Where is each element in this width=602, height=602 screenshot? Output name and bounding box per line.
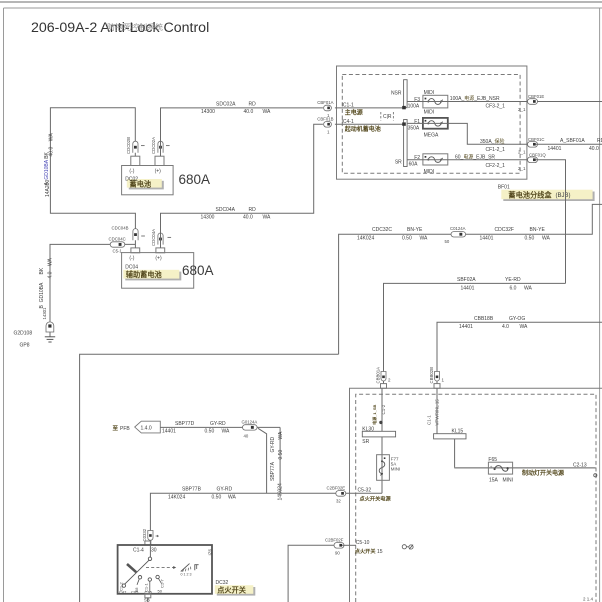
svg-text:GP8: GP8 [20, 343, 30, 349]
svg-text:(+): (+) [155, 169, 162, 175]
C|R jumper label [381, 112, 394, 121]
fuse F77 element [379, 457, 385, 475]
svg-text:MINI: MINI [391, 466, 401, 471]
connector CDC02A [151, 137, 170, 154]
svg-text:GY-RD: GY-RD [270, 436, 276, 452]
svg-text:B GD10BA: B GD10BA [39, 282, 45, 309]
svg-text:2 1.4: 2 1.4 [583, 597, 594, 602]
junction dot NSR [402, 106, 406, 109]
svg-text:14K024: 14K024 [357, 235, 374, 241]
svg-text:主电源: 主电源 [345, 109, 363, 117]
svg-text:CBF01A: CBF01A [317, 100, 333, 105]
svg-text:C5-32: C5-32 [358, 487, 372, 493]
svg-text:MEGA: MEGA [424, 133, 439, 139]
svg-text:32: 32 [336, 499, 341, 504]
svg-text:WA: WA [542, 235, 551, 241]
svg-text:F3: F3 [414, 97, 420, 103]
wire SBF02A YE-RD horizontal [384, 283, 566, 371]
svg-text:MINI: MINI [503, 477, 514, 483]
svg-text:0.50: 0.50 [402, 235, 412, 241]
svg-text:CDC04C: CDC04C [109, 237, 126, 242]
svg-text:14300: 14300 [201, 214, 215, 220]
svg-text:350A_保险: 350A_保险 [480, 138, 504, 145]
connector CBF01Q [528, 152, 547, 162]
svg-text:G2D108: G2D108 [14, 331, 33, 337]
svg-text:2_1: 2_1 [518, 150, 526, 155]
svg-text:CBB02B: CBB02B [429, 367, 434, 384]
connector C0124A inline on BN-YE wire [445, 226, 466, 244]
svg-text:C2-13: C2-13 [573, 462, 587, 468]
wire F77 down and left to C5-32 [344, 492, 382, 494]
svg-text:G0124A: G0124A [242, 419, 258, 424]
svg-text:CDC04A: CDC04A [151, 229, 156, 246]
svg-text:60_电源_EJB_SR: 60_电源_EJB_SR [455, 154, 495, 161]
svg-text:CBB01A: CBB01A [376, 367, 381, 384]
switch bottom contacts [122, 584, 125, 587]
svg-text:GY-OG: GY-OG [509, 316, 525, 322]
svg-text:RD: RD [249, 102, 257, 108]
switch dashed motion line with arrow [146, 566, 176, 569]
fuse F3 element [425, 98, 443, 105]
connector CBB01A [376, 367, 392, 384]
switch lever [125, 560, 150, 584]
svg-text:SR: SR [362, 439, 369, 445]
svg-text:C0124A: C0124A [450, 226, 466, 231]
wire SBP77A down [279, 427, 281, 493]
svg-text:BK: BK [39, 267, 45, 274]
svg-text:40.0: 40.0 [589, 146, 599, 152]
svg-text:点火开关 15: 点火开关 15 [355, 547, 383, 555]
connector G0124A inline [242, 419, 258, 438]
svg-text:30: 30 [151, 548, 157, 554]
wire CBF01Q down to SBF02A [536, 160, 566, 284]
svg-text:RD: RD [249, 207, 257, 213]
svg-text:电源_1_SB: 电源_1_SB [371, 404, 377, 424]
svg-text:2_1: 2_1 [518, 166, 526, 171]
wire CDC32 BN-YE horizontal [339, 204, 602, 354]
svg-text:F65: F65 [488, 457, 497, 463]
svg-text:SR: SR [395, 160, 402, 166]
svg-text:350A: 350A [408, 126, 420, 132]
ignition switch DC32 highlight label 点火开关 [215, 585, 256, 595]
svg-text:CBF01Q: CBF01Q [529, 152, 546, 157]
busbar NSR [404, 80, 408, 108]
connector C2BF02F [325, 538, 344, 556]
wire C2BF02F into box [342, 544, 356, 546]
svg-text:起动机蓄电池: 起动机蓄电池 [344, 125, 381, 133]
svg-text:KL30: KL30 [362, 426, 374, 432]
svg-text:点火开关: 点火开关 [217, 585, 247, 594]
svg-text:40.0 WA: 40.0 WA [49, 133, 55, 157]
svg-text:CDC04B: CDC04B [112, 226, 129, 231]
svg-text:C5-10: C5-10 [356, 540, 370, 546]
svg-text:DC32: DC32 [216, 580, 229, 586]
svg-text:A_SBF01A: A_SBF01A [560, 138, 585, 144]
border frame outer top line [0, 1, 602, 3]
svg-text:(-): (-) [129, 169, 134, 175]
svg-text:C2BF02F: C2BF02F [325, 538, 344, 543]
fuse F3 box [423, 95, 448, 108]
wire KL15 down to F65 [455, 439, 456, 468]
wire battery DC04 (+) to CBF01B [161, 124, 323, 248]
battery DC02 (+) terminal [155, 156, 164, 165]
svg-text:4.0: 4.0 [502, 324, 509, 330]
lower component inner dashed box [356, 394, 596, 602]
svg-text:0.50: 0.50 [278, 450, 284, 460]
battery DC04 (+) terminal [156, 248, 165, 253]
svg-text:DC02: DC02 [125, 176, 138, 182]
svg-text:制动灯开关电源: 制动灯开关电源 [522, 469, 564, 477]
wire busbar SR to F1 [407, 123, 527, 144]
svg-text:14300: 14300 [201, 109, 215, 115]
svg-text:CF1-2_1: CF1-2_1 [486, 147, 506, 153]
svg-text:SDC02A: SDC02A [216, 102, 236, 108]
connector CBF01E [528, 94, 545, 104]
svg-text:60A: 60A [409, 161, 419, 167]
border frame inner top line [4, 7, 602, 9]
svg-text:90: 90 [335, 550, 340, 555]
svg-text:CDC02B: CDC02B [126, 137, 131, 154]
switch lever handle thick stroke [127, 564, 136, 572]
svg-text:点火开关电源: 点火开关电源 [360, 494, 392, 502]
fuse F1 box (thick) [423, 118, 448, 129]
fuse F1 element [425, 120, 443, 126]
BJB outer solid box [337, 66, 527, 179]
battery DC04 box [122, 253, 194, 289]
wire IC4-1 into SR busbar [335, 123, 404, 125]
border frame left line [3, 8, 5, 602]
battery DC02 highlight label 蓄电池 [127, 179, 164, 189]
svg-text:CBF01B: CBF01B [317, 117, 333, 122]
BJB highlight label 蓄电池分线盒 (BJB) [501, 190, 594, 201]
wire battery DC02 (-) up to corner [50, 108, 135, 248]
svg-text:WA: WA [278, 431, 284, 440]
svg-text:辅助蓄电池: 辅助蓄电池 [126, 270, 163, 279]
svg-text:6.0: 6.0 [510, 285, 517, 291]
ground connector G2D108 [46, 322, 54, 332]
fuse F2 element [425, 156, 443, 162]
wire SBP77D from PFB to splice [160, 426, 280, 428]
connector CDC04A [151, 229, 171, 246]
svg-text:40: 40 [244, 434, 249, 439]
busbar KL30 [362, 431, 395, 437]
connector CDC04C inline [109, 237, 126, 254]
svg-text:(-): (-) [129, 256, 134, 262]
svg-text:CBF01E: CBF01E [528, 94, 544, 99]
junction dot on C1-2 wire [379, 421, 382, 424]
rotary detent symbol [181, 564, 199, 577]
pin stub ignition switch top [145, 541, 151, 545]
svg-text:GY-RD: GY-RD [217, 487, 233, 493]
ignition switch DC32 box [118, 545, 212, 594]
svg-text:CBB18B: CBB18B [474, 316, 494, 322]
svg-text:F1: F1 [414, 119, 420, 125]
svg-text:C2BF02E: C2BF02E [327, 486, 346, 491]
svg-text:0.50: 0.50 [212, 495, 222, 501]
svg-text:C5-1: C5-1 [113, 249, 123, 254]
fuse F65 box [488, 462, 512, 474]
svg-text:至: 至 [113, 424, 119, 432]
svg-text:C1-4: C1-4 [133, 548, 144, 554]
svg-text:CF3-2_1: CF3-2_1 [486, 104, 506, 110]
connector CBF01A [317, 100, 333, 118]
pin circle C2-13 [594, 474, 597, 477]
wire below bottom stub [144, 598, 150, 602]
busbar KL15 [434, 434, 466, 439]
svg-text:100A_电源_EJB_NSR: 100A_电源_EJB_NSR [450, 95, 500, 102]
svg-text:14401: 14401 [480, 235, 494, 241]
svg-text:+: + [490, 465, 493, 470]
wire IC1-1 into NSR busbar [335, 107, 404, 109]
svg-text:BN-YE: BN-YE [530, 227, 546, 233]
wire CBF01C to right edge A_SBF01A RD [536, 143, 602, 145]
svg-text:0 1 2 3: 0 1 2 3 [181, 573, 192, 577]
svg-text:100A: 100A [408, 103, 420, 109]
switch contact symbol KL15 [402, 545, 413, 550]
svg-text:680A: 680A [179, 172, 211, 187]
svg-text:WA: WA [420, 235, 429, 241]
battery DC02 (-) terminal [131, 156, 140, 165]
svg-text:BN-YE: BN-YE [407, 227, 423, 233]
svg-text:防抱死控制系统: 防抱死控制系统 [107, 22, 163, 32]
battery DC04 highlight label 辅助蓄电池 [123, 270, 181, 281]
svg-text:SDC04A: SDC04A [216, 207, 236, 213]
svg-text:40.0: 40.0 [244, 109, 254, 115]
svg-text:C0332: C0332 [142, 528, 147, 541]
wire C1-1 pin down to KL15 [436, 388, 438, 433]
svg-text:4.0 WA: 4.0 WA [47, 257, 53, 278]
connector C0332 [142, 528, 158, 541]
junction dot SR [402, 122, 406, 125]
svg-text:14401: 14401 [459, 324, 473, 330]
svg-text:50: 50 [158, 588, 163, 593]
wire C0332 to ignition switch pin [149, 540, 151, 545]
switch common contact [149, 545, 151, 557]
wire busbar SR to F2 [407, 159, 527, 161]
svg-text:DC04: DC04 [125, 265, 138, 271]
svg-text:CDC32C: CDC32C [372, 227, 392, 233]
connector CDC02B [126, 137, 145, 154]
fuse F65 element [490, 465, 509, 472]
svg-text:1.4.0: 1.4.0 [141, 426, 152, 432]
svg-text:蓄电池分线盒: 蓄电池分线盒 [508, 190, 552, 199]
svg-text:MIDI: MIDI [424, 110, 435, 116]
svg-text:14401: 14401 [461, 285, 475, 291]
svg-text:WA: WA [222, 429, 231, 435]
wire SBP77B branch diagonal and down [258, 428, 267, 493]
svg-text:2_1: 2_1 [518, 107, 526, 112]
wire C1-2 pin down to KL30 [381, 388, 383, 431]
svg-text:WA: WA [263, 109, 272, 115]
svg-text:C1-1: C1-1 [426, 415, 431, 425]
svg-text:RD: RD [597, 138, 602, 144]
fuse F77 box [377, 455, 390, 481]
svg-text:SBP77B: SBP77B [182, 487, 202, 493]
svg-text:IC1-1: IC1-1 [342, 103, 354, 109]
svg-text:NSR: NSR [391, 91, 402, 97]
wire battery DC04 (-) branch to ground via CDC04C [50, 244, 135, 321]
wire battery DC02 (+) to CBF01A [161, 108, 323, 156]
svg-text:MIDI: MIDI [424, 169, 435, 175]
svg-text:14K024: 14K024 [168, 495, 185, 501]
PFB reference arrow 1.4.0 [113, 421, 161, 433]
wire SBP77B horizontal to ignition switch [150, 493, 336, 530]
svg-text:GY-RD: GY-RD [210, 421, 226, 427]
connector CBF01C [528, 137, 545, 147]
svg-text:C47: C47 [119, 589, 127, 594]
svg-text:YE-RD: YE-RD [505, 277, 521, 283]
svg-text:14K024: 14K024 [278, 483, 284, 500]
svg-text:40.0: 40.0 [243, 214, 253, 220]
connector C2BF02E [327, 486, 346, 504]
svg-text:C|R: C|R [383, 114, 392, 120]
contact stub wires [137, 579, 139, 585]
svg-text:PFB: PFB [120, 426, 130, 432]
svg-text:SBP77A: SBP77A [270, 461, 276, 481]
svg-text:WA: WA [520, 324, 529, 330]
wire CBB18B GY-OG horizontal [437, 322, 602, 371]
svg-text:BF01: BF01 [498, 185, 510, 191]
svg-text:C1-7: C1-7 [159, 579, 164, 588]
lower component outer solid box [350, 388, 602, 602]
fuse F2 box [423, 154, 448, 165]
wire busbar NSR to F3 [407, 101, 602, 103]
connector CDC04B [112, 226, 145, 241]
svg-text:WA: WA [524, 285, 533, 291]
pin stub CBB01A into box [381, 384, 387, 389]
ground symbol GP8 [45, 332, 55, 342]
connector CBB02B [429, 367, 445, 384]
battery DC04 (-) terminal [131, 248, 140, 253]
svg-text:50: 50 [445, 239, 450, 244]
svg-text:C05: C05 [131, 589, 139, 594]
busbar SR [404, 120, 408, 167]
svg-text:WA: WA [263, 214, 272, 220]
svg-text:IC4-1: IC4-1 [342, 119, 354, 125]
connector CBF01B [317, 117, 333, 135]
svg-text:14401: 14401 [162, 429, 176, 435]
svg-text:14401: 14401 [548, 146, 562, 152]
svg-text:(BJB): (BJB) [556, 193, 571, 199]
svg-text:CDC32F: CDC32F [495, 227, 514, 233]
svg-text:KL15: KL15 [452, 429, 464, 435]
svg-text:SBF02A: SBF02A [457, 277, 476, 283]
svg-text:680A: 680A [182, 263, 214, 278]
svg-text:SB: SB [144, 598, 150, 602]
svg-text:CDC02A: CDC02A [151, 137, 156, 154]
svg-text:0.50: 0.50 [205, 429, 215, 435]
pin stub CBB02B into box [434, 384, 440, 389]
svg-text:IZ6: IZ6 [208, 549, 213, 556]
svg-text:14301: 14301 [42, 307, 47, 320]
wire C5-10 ignition row [288, 545, 334, 602]
svg-text:MIDI: MIDI [424, 90, 435, 96]
BJB inner dashed box [342, 75, 520, 174]
svg-text:CBF01C: CBF01C [528, 137, 544, 142]
pin stub ignition switch bottom [145, 594, 151, 598]
wire BN-YE left branch down and left to bottom [80, 354, 339, 602]
svg-text:CF2-2_1: CF2-2_1 [486, 163, 506, 169]
svg-text:(+): (+) [155, 256, 162, 262]
svg-text:0.50: 0.50 [525, 235, 535, 241]
wire KL30 to F77 [381, 437, 383, 493]
border frame right line [599, 8, 601, 602]
battery DC02 box [122, 166, 174, 195]
svg-text:WA: WA [228, 495, 237, 501]
svg-text:SBP77D: SBP77D [175, 421, 195, 427]
svg-text:15A: 15A [489, 477, 499, 483]
